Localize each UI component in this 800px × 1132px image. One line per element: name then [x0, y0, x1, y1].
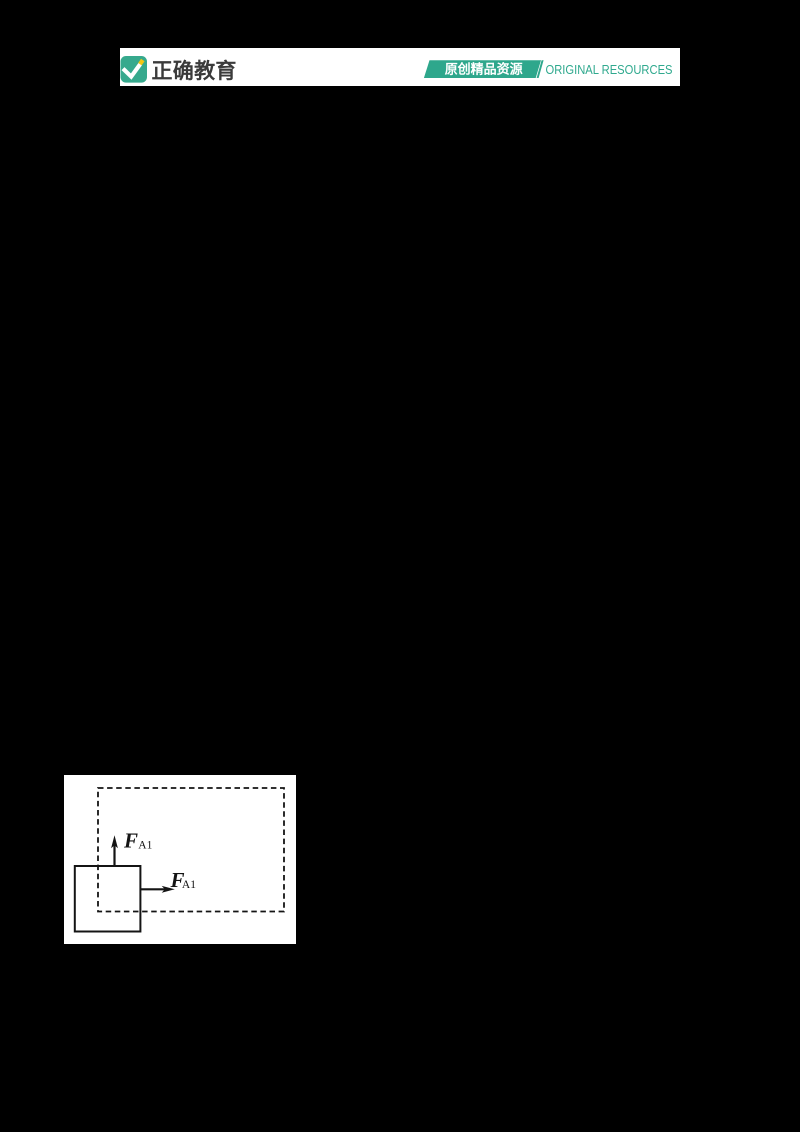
logo icon (green check square) [120, 48, 680, 87]
svg-text:ORIGINAL RESOURCES: ORIGINAL RESOURCES [546, 62, 673, 76]
banner parallelogram 原创精品资源 [424, 60, 541, 78]
force arrow F_A1 rightward: shaft [140, 888, 165, 890]
physics figure panel [64, 775, 296, 944]
slash [537, 60, 544, 78]
dashed boundary rectangle [98, 788, 284, 912]
logo text 正确教育 [152, 55, 237, 85]
force arrow F_A1 upward: shaft [113, 845, 115, 866]
svg-text:原创精品资源: 原创精品资源 [445, 61, 523, 76]
svg-text:A1: A1 [182, 879, 196, 891]
yellow pen tip [140, 60, 143, 64]
header band [120, 48, 680, 86]
svg-text:A1: A1 [138, 840, 152, 852]
block A (solid square) [75, 866, 141, 932]
svg-text:F: F [123, 829, 138, 853]
force arrow F_A1 upward: head [111, 835, 118, 848]
checkmark [123, 64, 140, 77]
force arrow F_A1 rightward: head [162, 886, 175, 893]
